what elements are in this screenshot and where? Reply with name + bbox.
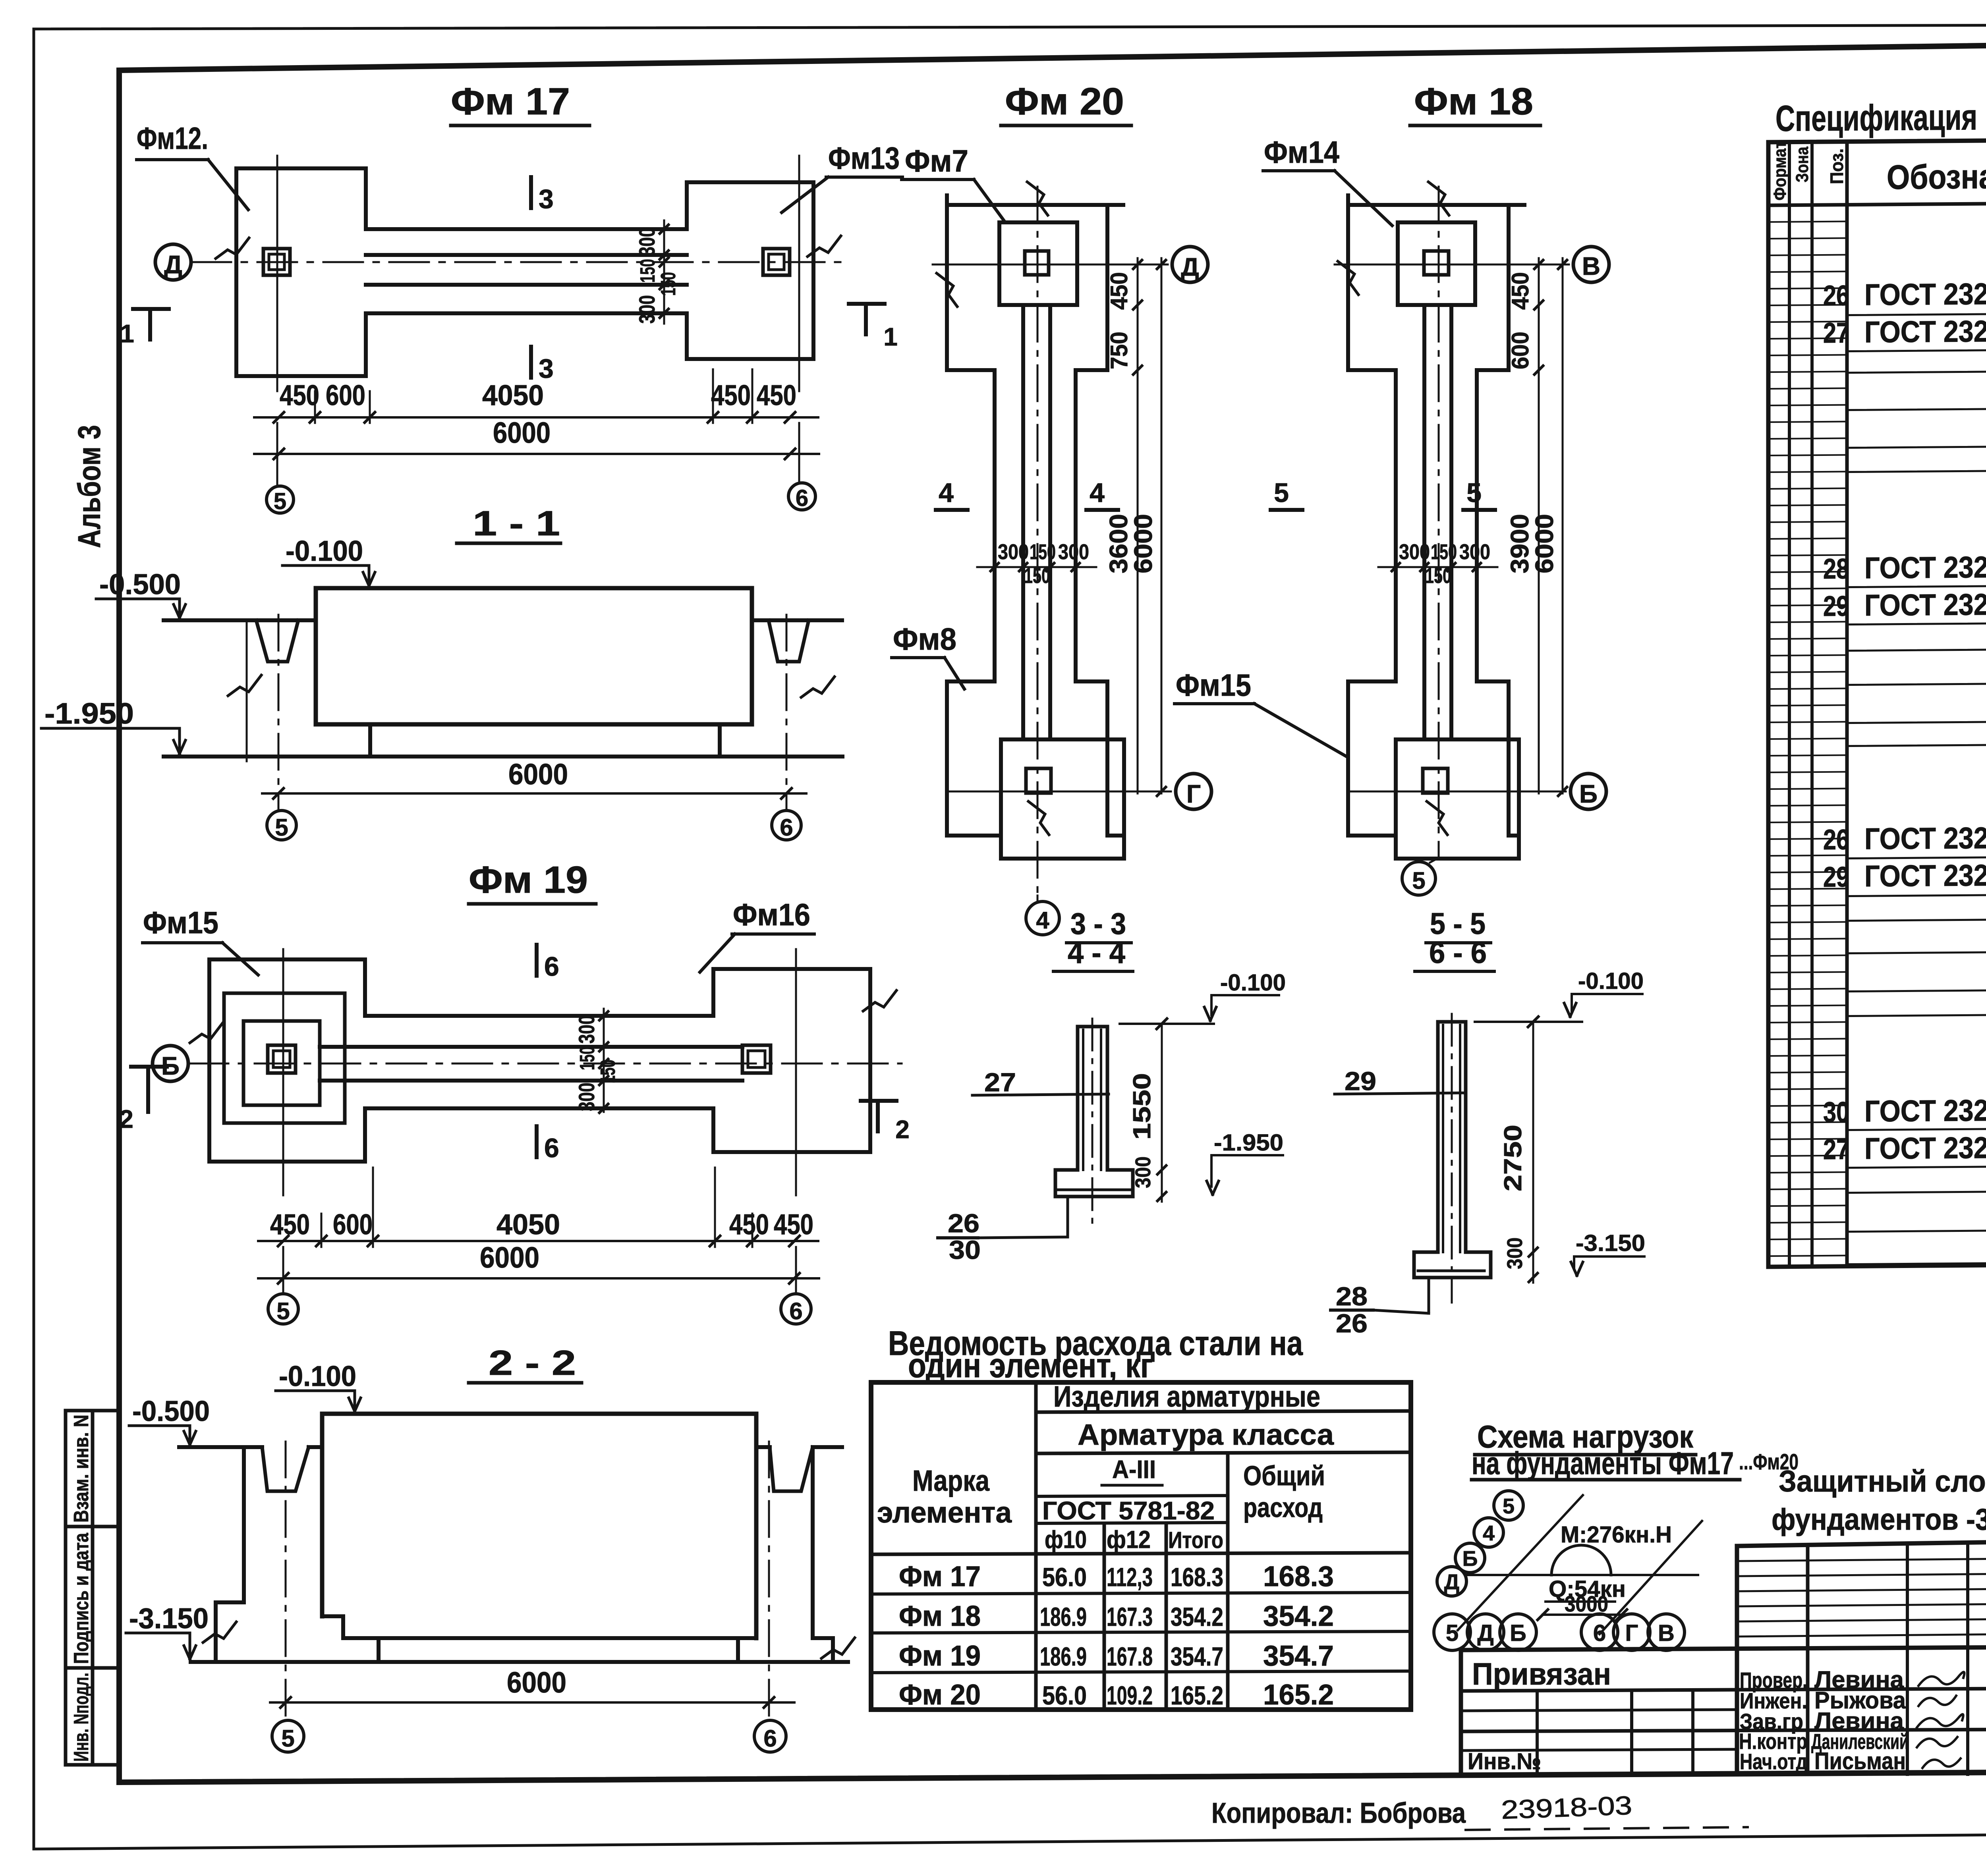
svg-text:2750: 2750 <box>1499 1125 1527 1191</box>
svg-text:56.0: 56.0 <box>1042 1681 1087 1710</box>
svg-text:5: 5 <box>274 488 286 514</box>
svg-text:ГОСТ 23279-85: ГОСТ 23279-85 <box>1864 277 1986 312</box>
svg-text:Спецификация монолитных фундам: Спецификация монолитных фундаментов Фм17… <box>1775 93 1986 139</box>
centerline axis vertical Фм20 <box>1037 187 1039 896</box>
svg-text:112,3: 112,3 <box>1107 1562 1153 1592</box>
svg-text:Зона: Зона <box>1793 147 1812 183</box>
svg-text:-1.950: -1.950 <box>1214 1130 1283 1156</box>
svg-text:ГОСТ 23279-85: ГОСТ 23279-85 <box>1864 314 1986 349</box>
svg-text:Фм8: Фм8 <box>893 621 956 656</box>
svg-text:354.7: 354.7 <box>1263 1640 1334 1672</box>
svg-text:Взам. инв. N: Взам. инв. N <box>70 1415 93 1523</box>
svg-text:6: 6 <box>544 952 559 982</box>
svg-text:6000: 6000 <box>493 416 551 449</box>
section mark 6 upper Фм19 <box>535 945 539 976</box>
svg-text:150: 150 <box>1425 564 1451 588</box>
centerline axis vertical Фм18 <box>1438 187 1440 858</box>
steel table data rows <box>871 1592 1411 1594</box>
svg-text:Арматура класса: Арматура класса <box>1078 1418 1334 1451</box>
steel table verticals <box>1034 1382 1038 1710</box>
T-section left footing <box>1055 1170 1133 1197</box>
extension lines Фм17 dims <box>314 391 316 423</box>
svg-text:6: 6 <box>796 485 808 511</box>
svg-text:-3.150: -3.150 <box>129 1603 209 1635</box>
svg-text:Фм 20: Фм 20 <box>899 1679 981 1711</box>
svg-text:150: 150 <box>597 1060 620 1083</box>
svg-text:150: 150 <box>657 272 680 296</box>
svg-text:30: 30 <box>1823 1096 1849 1128</box>
svg-text:6000: 6000 <box>1129 514 1157 573</box>
plan Фм17 outline - bottom flange <box>366 313 687 359</box>
svg-text:Д: Д <box>1181 253 1199 281</box>
dim 300 T-section right <box>1529 1273 1538 1282</box>
svg-text:Д: Д <box>164 250 182 279</box>
left attribute strip boxes <box>66 1411 119 1765</box>
dim line 6000 vertical Фм18 <box>1562 258 1564 793</box>
dim 2750 T-section right <box>1532 1022 1534 1252</box>
axis circle В Фм18 <box>1573 247 1609 282</box>
section mark 4 right <box>1086 508 1118 512</box>
load scheme moment arc M <box>1551 1545 1611 1575</box>
svg-text:ГОСТ 23279-85: ГОСТ 23279-85 <box>1864 1131 1986 1166</box>
svg-text:27: 27 <box>1823 317 1849 349</box>
svg-text:Изделия арматурные: Изделия арматурные <box>1053 1380 1320 1413</box>
svg-text:Формат: Формат <box>1770 141 1790 201</box>
svg-text:Фм12.: Фм12. <box>137 121 208 156</box>
svg-text:элемента: элемента <box>877 1496 1012 1529</box>
svg-text:А-III: А-III <box>1112 1455 1156 1484</box>
T-section left ref line -0.100 <box>1120 1023 1214 1025</box>
svg-text:-0.100: -0.100 <box>286 535 363 567</box>
svg-text:-1.950: -1.950 <box>44 697 134 730</box>
svg-text:5: 5 <box>276 1298 290 1324</box>
section mark 2 left Фм19 <box>131 1065 167 1069</box>
svg-text:6: 6 <box>780 814 793 841</box>
svg-text:165.2: 165.2 <box>1263 1679 1334 1711</box>
svg-text:300: 300 <box>574 1015 599 1044</box>
svg-text:В: В <box>1658 1620 1675 1646</box>
svg-text:167.8: 167.8 <box>1107 1642 1153 1671</box>
svg-text:6000: 6000 <box>507 1666 566 1699</box>
svg-text:600: 600 <box>1507 332 1534 369</box>
svg-text:Инв.№: Инв.№ <box>1468 1749 1541 1774</box>
section mark 1 left <box>133 307 169 311</box>
svg-text:450: 450 <box>757 380 796 411</box>
svg-text:300: 300 <box>574 1083 599 1111</box>
svg-text:Привязан: Привязан <box>1472 1656 1611 1691</box>
plan Фм19 left pad step3 <box>243 1021 320 1105</box>
svg-text:Г: Г <box>1625 1620 1638 1646</box>
section 2-2 inner step left <box>322 1616 343 1638</box>
grid line 5 vertical through left pad <box>276 156 278 391</box>
column square left pad Фм19 <box>268 1045 296 1073</box>
svg-text:354.2: 354.2 <box>1171 1602 1223 1631</box>
spec table column lines <box>1788 142 1791 1267</box>
svg-text:Д: Д <box>1444 1570 1459 1594</box>
title block Привязан cell <box>1461 1647 1986 1650</box>
svg-text:3: 3 <box>539 353 554 384</box>
section 1-1 ground line right <box>752 618 842 622</box>
load scheme diagonal axis 1 <box>1458 1495 1583 1630</box>
centerline axis Б horizontal Фм19 <box>189 1063 902 1065</box>
grid circle 5 Фм19 <box>268 1294 298 1324</box>
svg-text:354.2: 354.2 <box>1263 1600 1334 1632</box>
svg-text:450: 450 <box>774 1209 813 1241</box>
plan Фм18 top band edge <box>1348 203 1524 207</box>
svg-text:4: 4 <box>939 478 954 508</box>
section mark 5 right <box>1463 508 1495 512</box>
section 2-2 base step verticals <box>377 1638 381 1662</box>
plan Фм19 left pad outer <box>209 959 365 1162</box>
svg-text:Фм15: Фм15 <box>1176 668 1251 703</box>
svg-text:один элемент, кг: один элемент, кг <box>908 1347 1153 1385</box>
svg-text:29: 29 <box>1823 861 1849 893</box>
T-section right column <box>1436 1022 1440 1252</box>
section 1-1 ground line left <box>164 618 316 622</box>
axis lines section 2-2 <box>285 1442 287 1716</box>
svg-text:450: 450 <box>280 380 319 411</box>
svg-text:Фм16: Фм16 <box>733 897 810 932</box>
svg-text:4: 4 <box>1036 907 1049 934</box>
svg-text:5: 5 <box>1466 478 1482 508</box>
grid circle 4 below Фм20 <box>1037 896 1039 902</box>
svg-text:300: 300 <box>1503 1237 1527 1269</box>
spec table fine row lines left columns <box>1768 222 1847 222</box>
svg-text:ГОСТ 23279-85: ГОСТ 23279-85 <box>1864 821 1986 856</box>
break mark Фм19 right pad <box>863 990 896 1011</box>
svg-text:Фм 17: Фм 17 <box>899 1561 981 1592</box>
svg-text:167.3: 167.3 <box>1107 1602 1153 1631</box>
svg-text:168.3: 168.3 <box>1171 1562 1223 1592</box>
svg-text:Копировал: Боброва: Копировал: Боброва <box>1211 1797 1466 1829</box>
svg-text:6: 6 <box>1593 1620 1606 1646</box>
svg-text:28: 28 <box>1823 553 1849 585</box>
svg-text:Защитный слой бетона для армат: Защитный слой бетона для арматуры подошв… <box>1779 1465 1986 1498</box>
plan Фм20 top band edge <box>947 203 1123 207</box>
svg-text:150: 150 <box>636 259 659 283</box>
axis В horizontal line Фм18 <box>1335 264 1569 266</box>
svg-text:Б: Б <box>1510 1620 1526 1646</box>
plan Фм17 outline - top flange <box>366 182 687 229</box>
svg-text:В: В <box>1582 252 1600 280</box>
axis circle Г Фм20 <box>1176 774 1211 809</box>
svg-text:М:276кн.Н: М:276кн.Н <box>1561 1522 1672 1548</box>
svg-text:354.7: 354.7 <box>1171 1642 1223 1671</box>
svg-text:150: 150 <box>576 1046 599 1070</box>
grid circle 5 section 2-2 <box>272 1720 304 1752</box>
T-section left column <box>1076 1027 1080 1170</box>
svg-text:ГОСТ 23279-85: ГОСТ 23279-85 <box>1864 858 1986 894</box>
svg-text:Б: Б <box>1462 1547 1478 1571</box>
svg-text:29: 29 <box>1345 1066 1376 1096</box>
break marks section 2-2 <box>203 1622 236 1642</box>
svg-text:109.2: 109.2 <box>1107 1681 1153 1710</box>
load scheme axis circles bottom row <box>1434 1614 1470 1650</box>
svg-text:ГОСТ 5781-82: ГОСТ 5781-82 <box>1042 1496 1215 1525</box>
column square top pad Фм20 <box>1025 251 1049 275</box>
steel table outer border <box>871 1382 1411 1710</box>
svg-text:27: 27 <box>984 1067 1016 1097</box>
svg-text:23918-03: 23918-03 <box>1501 1791 1632 1824</box>
formwork cup left section 2-2 <box>262 1447 309 1491</box>
svg-text:1 - 1: 1 - 1 <box>473 504 560 543</box>
svg-text:5: 5 <box>1503 1494 1515 1518</box>
svg-text:ГОСТ 23279-85: ГОСТ 23279-85 <box>1864 1093 1986 1129</box>
axis lines section 1-1 <box>278 615 280 809</box>
centerline axis Д horizontal <box>191 261 842 263</box>
svg-text:600: 600 <box>333 1209 373 1241</box>
svg-text:186.9: 186.9 <box>1040 1642 1087 1671</box>
svg-text:4 - 4: 4 - 4 <box>1068 936 1125 970</box>
title block left small table <box>1461 1689 1986 1691</box>
svg-text:Альбом 3: Альбом 3 <box>71 425 107 548</box>
section 2-2 beam body <box>322 1414 756 1638</box>
break mark band left Фм20 <box>937 273 957 307</box>
break mark bottom pad Фм18 <box>1427 801 1447 835</box>
svg-text:5: 5 <box>1274 478 1289 508</box>
svg-text:150: 150 <box>1431 540 1457 564</box>
svg-text:Подпись и дата: Подпись и дата <box>70 1532 93 1664</box>
grid circle 6 section 2-2 <box>754 1720 786 1752</box>
axis Г horizontal line Фм20 <box>947 791 1171 793</box>
plan Фм17 outline - left pad <box>236 168 366 376</box>
svg-text:600: 600 <box>326 380 365 411</box>
dim 300 T-section left <box>1157 1192 1166 1201</box>
grid circle 5 section 1-1 <box>267 811 296 840</box>
svg-text:450: 450 <box>1507 272 1534 310</box>
section mark 2 right Фм19 <box>861 1099 896 1103</box>
svg-text:2: 2 <box>895 1115 910 1144</box>
svg-text:450: 450 <box>711 380 751 411</box>
svg-text:Поз.: Поз. <box>1826 149 1847 184</box>
svg-text:2: 2 <box>119 1105 133 1133</box>
svg-text:-0.500: -0.500 <box>99 569 181 600</box>
plan Фм19 left pad step2 <box>224 993 345 1123</box>
axis Д horizontal line Фм20 <box>933 264 1168 266</box>
grid circle 6 Фм17 <box>788 483 815 510</box>
section 2-2 ground line left <box>179 1445 262 1449</box>
section 2-2 right wall with footing step <box>813 1447 833 1662</box>
svg-text:расход: расход <box>1243 1492 1323 1523</box>
plan Фм20 beam strip verticals <box>1021 305 1025 739</box>
plan Фм17 beam strip lines <box>366 253 687 257</box>
dim line 6000 vertical Фм20 <box>1161 258 1163 793</box>
svg-text:ГОСТ 23279-85: ГОСТ 23279-85 <box>1864 587 1986 623</box>
svg-text:-0.100: -0.100 <box>1578 968 1644 994</box>
formwork cup right section 2-2 <box>770 1447 813 1491</box>
grid circle 6 section 1-1 <box>772 811 801 840</box>
plan Фм20 top pad <box>999 222 1077 305</box>
svg-text:6000: 6000 <box>508 758 568 791</box>
svg-text:Нач.отд: Нач.отд <box>1740 1749 1807 1774</box>
svg-text:1: 1 <box>120 319 134 348</box>
T-section right column axis <box>1451 1014 1453 1303</box>
svg-text:-0.100: -0.100 <box>1220 970 1286 996</box>
column square right pad Фм19 <box>742 1045 771 1073</box>
plan Фм20 bottom pad <box>1001 739 1124 859</box>
svg-text:29: 29 <box>1823 591 1849 622</box>
svg-text:Фм 18: Фм 18 <box>1414 80 1533 123</box>
extension lines Фм19 dims <box>321 1214 323 1247</box>
load scheme diagonal axis 2 <box>1600 1521 1702 1634</box>
grid line 6 vertical Фм19 <box>795 949 797 1195</box>
section 1-1 base slab <box>164 755 842 759</box>
svg-text:4050: 4050 <box>496 1209 560 1241</box>
extension line left section 1-1 <box>246 620 248 761</box>
grid line 5 vertical Фм19 <box>282 949 284 1195</box>
plan Фм18 band left <box>1348 195 1396 836</box>
svg-text:ф10: ф10 <box>1045 1526 1087 1554</box>
svg-text:28: 28 <box>1336 1282 1368 1311</box>
svg-text:Итого: Итого <box>1168 1527 1223 1553</box>
svg-text:Обозначение: Обозначение <box>1887 157 1986 197</box>
T-section right ref line -0.100 <box>1475 1021 1582 1023</box>
grid circle 6 Фм19 <box>781 1294 811 1324</box>
title block verticals <box>1735 1546 1739 1774</box>
svg-text:Фм15: Фм15 <box>143 905 218 940</box>
axis Б horizontal line Фм18 <box>1348 791 1566 793</box>
steel table header rows <box>1036 1411 1411 1412</box>
svg-text:6000: 6000 <box>480 1241 539 1274</box>
grid circle 5 below Фм18 <box>1430 858 1439 863</box>
axis circle Д Фм20 <box>1172 247 1208 282</box>
svg-text:26: 26 <box>1823 280 1849 312</box>
svg-text:30: 30 <box>949 1235 981 1264</box>
section mark 3 upper <box>529 177 533 208</box>
svg-text:450: 450 <box>729 1209 769 1241</box>
svg-text:Инв. Nподл.: Инв. Nподл. <box>70 1673 93 1762</box>
plan Фм19 right pad <box>713 969 870 1152</box>
svg-text:300: 300 <box>1058 540 1089 564</box>
svg-text:5: 5 <box>281 1725 294 1752</box>
grid line 6 vertical through right pad <box>798 156 800 391</box>
spec table outer border <box>1768 137 1986 1267</box>
svg-text:Фм 17: Фм 17 <box>451 80 570 123</box>
svg-text:Б: Б <box>1579 780 1598 808</box>
svg-text:300: 300 <box>998 540 1029 564</box>
plan Фм18 top pad <box>1398 222 1475 305</box>
svg-text:Фм7: Фм7 <box>905 143 968 178</box>
svg-text:1550: 1550 <box>1128 1073 1156 1140</box>
section 2-2 left wall with footing step <box>216 1447 244 1662</box>
svg-text:300: 300 <box>1131 1156 1155 1188</box>
formwork cup left section 1-1 <box>256 620 298 662</box>
vertical dim chain 450 750 right of Фм20 <box>1137 258 1139 793</box>
column square bottom pad Фм20 <box>1026 768 1051 793</box>
plan Фм18 band right <box>1477 205 1519 836</box>
svg-text:450: 450 <box>1106 272 1132 310</box>
svg-text:Д: Д <box>1477 1620 1493 1646</box>
svg-text:Письман: Письман <box>1814 1748 1906 1774</box>
break mark on centerline Фм20 top <box>1027 182 1048 215</box>
svg-text:300: 300 <box>634 228 659 256</box>
vertical dims 300 150 150 300 at Фм19 beam <box>603 1009 605 1112</box>
plan Фм19 beam strip lines <box>320 1045 742 1049</box>
svg-text:6: 6 <box>544 1133 559 1163</box>
axis circle Д <box>155 244 191 280</box>
section mark 5 left <box>1271 508 1302 512</box>
svg-text:ф12: ф12 <box>1107 1526 1151 1554</box>
load scheme horizontal axis line <box>1466 1574 1698 1576</box>
svg-text:Фм 19: Фм 19 <box>899 1640 981 1672</box>
svg-text:26: 26 <box>1336 1309 1368 1338</box>
svg-text:Фм 19: Фм 19 <box>469 859 588 901</box>
svg-text:168.3: 168.3 <box>1263 1561 1334 1592</box>
svg-text:-0.100: -0.100 <box>279 1361 356 1392</box>
svg-text:ГОСТ 23279-85: ГОСТ 23279-85 <box>1864 550 1986 585</box>
svg-text:300: 300 <box>1459 540 1490 564</box>
svg-text:3: 3 <box>539 184 554 214</box>
plan Фм19 top flange <box>365 969 713 1016</box>
svg-text:4: 4 <box>1483 1521 1495 1545</box>
section 1-1 beam body <box>316 588 752 724</box>
section mark 3 lower <box>529 347 533 378</box>
svg-text:750: 750 <box>1106 332 1132 369</box>
section mark 6 lower Фм19 <box>535 1126 539 1157</box>
break mark centerline Фм18 <box>1428 182 1449 215</box>
break marks section 1-1 <box>228 675 261 696</box>
svg-text:6 - 6: 6 - 6 <box>1429 936 1487 970</box>
svg-text:27: 27 <box>1823 1134 1849 1166</box>
svg-text:Фм13: Фм13 <box>828 141 900 176</box>
svg-text:Марка: Марка <box>912 1464 990 1497</box>
load scheme axis circles upper chain <box>1437 1567 1466 1596</box>
title block top line right part <box>1737 1534 1986 1546</box>
dimension line 1 Фм19 <box>258 1240 818 1242</box>
break mark band left Фм18 <box>1338 261 1358 295</box>
break mark right pad <box>808 236 841 257</box>
signatures scribbles <box>1918 1672 1964 1686</box>
svg-text:Г: Г <box>1186 780 1201 808</box>
svg-text:300: 300 <box>634 295 659 324</box>
svg-text:150: 150 <box>1024 564 1050 588</box>
svg-text:4: 4 <box>1090 478 1105 508</box>
section mark 1 right <box>849 302 885 306</box>
plan Фм20 band left upper <box>947 195 1001 836</box>
plan Фм18 bottom pad <box>1396 739 1519 859</box>
svg-text:5: 5 <box>275 814 288 841</box>
column square right pad Фм17 <box>763 249 790 275</box>
vertical dims 300 150 150 300 at Фм17 beam <box>663 220 665 324</box>
title block small rows upper left <box>1737 1559 1986 1561</box>
svg-text:150: 150 <box>1030 540 1056 564</box>
grid extension to circles Фм17 <box>276 423 278 486</box>
svg-text:1: 1 <box>883 322 898 351</box>
svg-text:4050: 4050 <box>482 380 544 411</box>
spec table header row <box>1768 200 1986 205</box>
svg-text:Фм 18: Фм 18 <box>899 1600 981 1632</box>
dimension line 1 Фм17 <box>254 416 818 419</box>
section 2-2 base line <box>191 1660 848 1664</box>
svg-text:-0.500: -0.500 <box>132 1395 210 1427</box>
svg-text:6: 6 <box>763 1725 777 1752</box>
svg-text:186.9: 186.9 <box>1040 1602 1087 1631</box>
svg-text:300: 300 <box>1399 540 1430 564</box>
vertical dim chain 450 600 right of Фм18 <box>1538 258 1540 793</box>
section 2-2 ground line right <box>756 1445 770 1449</box>
svg-text:2 - 2: 2 - 2 <box>489 1343 576 1382</box>
svg-text:6: 6 <box>789 1298 802 1324</box>
svg-text:-3.150: -3.150 <box>1576 1230 1645 1256</box>
svg-text:26: 26 <box>1823 824 1849 856</box>
svg-text:26: 26 <box>948 1208 979 1238</box>
svg-text:на фундаменты Фм17: на фундаменты Фм17 <box>1472 1446 1734 1481</box>
spec table full width row lines <box>1847 310 1986 315</box>
T-section right footing <box>1414 1252 1491 1278</box>
column square bottom pad Фм18 <box>1423 768 1448 793</box>
section 2-2 beam bottom <box>343 1636 756 1640</box>
svg-text:Фм 20: Фм 20 <box>1005 80 1124 123</box>
